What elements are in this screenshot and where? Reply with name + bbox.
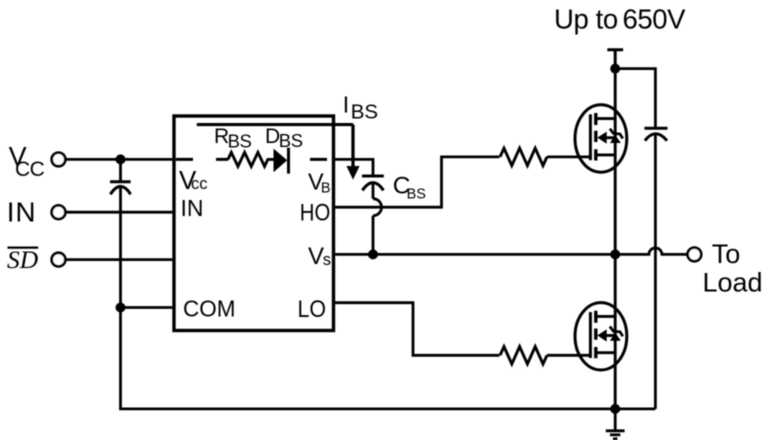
label DBS (265, 125, 303, 151)
wire: LO gate route (334, 303, 500, 356)
wire: VS row to load (334, 248, 689, 254)
svg-text:Up to 650V: Up to 650V (554, 4, 686, 35)
label RBS (214, 125, 252, 152)
wire: main trunk (drain-source column) (614, 69, 617, 409)
svg-text:IN: IN (181, 195, 204, 221)
svg-text:BS: BS (351, 101, 378, 124)
node: COM junction (116, 303, 126, 313)
node: VCC bypass junction (116, 154, 126, 164)
svg-text:IN: IN (7, 196, 37, 227)
svg-text:BS: BS (228, 131, 252, 152)
wire: top node to bus capacitor (615, 69, 655, 130)
resistor RBS (228, 152, 274, 166)
capacitor (HV bus) (644, 128, 667, 409)
node: switch node junction (610, 249, 620, 259)
svg-text:Load: Load (703, 267, 763, 297)
wire: internal bootstrap supply trace (197, 123, 353, 126)
terminal VCC input (52, 153, 66, 167)
node: ground junction (610, 404, 620, 414)
svg-text:SD: SD (7, 245, 39, 274)
label CBS (393, 173, 426, 203)
IC gate driver box (174, 116, 334, 331)
wire: SD row (65, 258, 173, 261)
svg-text:s: s (323, 251, 331, 269)
label SD input (overlined) (7, 245, 39, 274)
svg-text:B: B (321, 180, 331, 196)
wire: VB to bootstrap cap (334, 159, 374, 176)
transistor Q1 (high-side MOSFET) (575, 105, 627, 172)
svg-text:CC: CC (15, 158, 45, 181)
pin label VB (308, 168, 331, 196)
svg-text:HO: HO (300, 199, 331, 226)
wire: HO gate route (334, 157, 500, 207)
svg-text:I: I (343, 91, 349, 117)
svg-text:BS: BS (279, 130, 303, 151)
pin label VCC (inside IC) (179, 165, 208, 195)
ground (606, 409, 625, 439)
svg-text:cc: cc (191, 175, 208, 193)
capacitor (VCC bypass) (110, 159, 131, 307)
label To Load (703, 239, 763, 297)
terminal SD input (52, 253, 66, 267)
svg-text:V: V (308, 243, 324, 270)
svg-text:To: To (712, 239, 741, 269)
wire: ground return rail (121, 308, 656, 409)
terminal IN input (52, 205, 66, 219)
wire: LO gate to Q2 (547, 354, 590, 357)
label VCC input (9, 142, 45, 181)
wire: COM row (121, 306, 173, 309)
diode DBS (274, 148, 289, 174)
node: HV bus junction (610, 64, 620, 74)
label IBS (343, 91, 378, 123)
terminal To Load (688, 248, 702, 262)
wire: IN row (65, 211, 173, 214)
resistor (HO gate) (500, 148, 547, 165)
wire: dashed bootstrap net inside IC (176, 158, 327, 161)
svg-text:BS: BS (407, 186, 426, 202)
capacitor CBS (bootstrap) (362, 176, 384, 254)
svg-text:COM: COM (183, 296, 236, 322)
wire: VCC input row (65, 158, 173, 161)
pin label VS (308, 243, 331, 270)
transistor Q2 (low-side MOSFET) (575, 303, 627, 370)
node: CBS to VS junction (368, 249, 378, 259)
wire: HO gate to Q1 (547, 155, 590, 158)
current arrow IBS (346, 125, 359, 180)
resistor (LO gate) (500, 347, 547, 364)
terminal: HV bus bar (607, 50, 623, 69)
svg-text:LO: LO (298, 296, 327, 323)
